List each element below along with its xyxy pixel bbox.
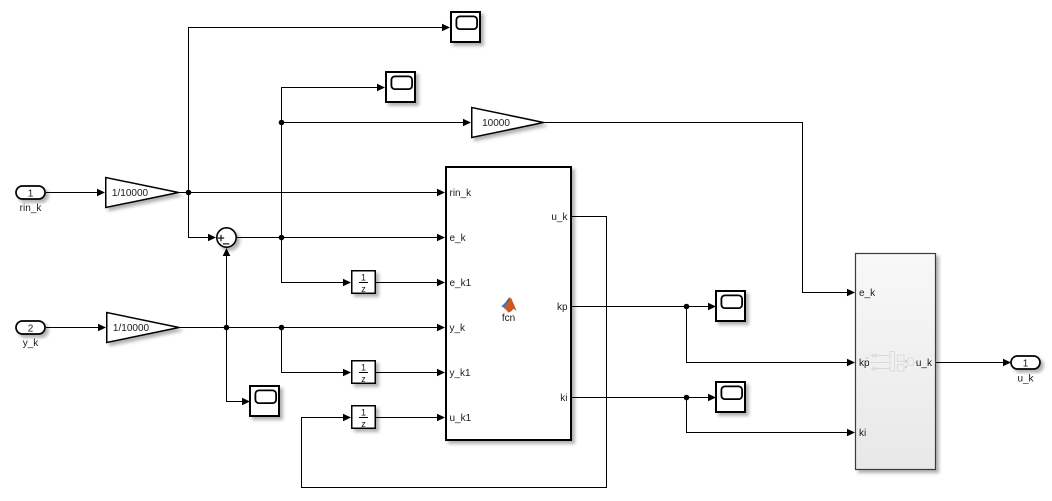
svg-text:y_k: y_k — [23, 338, 40, 349]
unit delay y_k1 — [352, 361, 376, 384]
svg-text:1: 1 — [361, 363, 366, 373]
svg-text:fcn: fcn — [502, 313, 515, 324]
scope3 lower left — [250, 386, 279, 416]
svg-text:10000: 10000 — [482, 118, 510, 129]
junction rin_k — [186, 190, 192, 196]
svg-text:1: 1 — [361, 408, 366, 418]
junction e_k gain — [279, 120, 285, 126]
svg-text:e_k: e_k — [450, 233, 467, 244]
wire kp branch to subsystem kp — [687, 307, 848, 363]
junction y_k sum — [224, 325, 230, 331]
wire e_k branch to gain 10000 — [282, 122, 464, 124]
svg-text:ki: ki — [560, 393, 567, 404]
junction e_k — [279, 235, 285, 241]
wire gain2 to fcn y_k — [179, 327, 438, 329]
junction y_k delay — [279, 325, 285, 331]
svg-text:kp: kp — [557, 302, 568, 313]
junction kp — [684, 304, 690, 310]
svg-text:y_k1: y_k1 — [450, 368, 472, 379]
outport 1 u_k — [1011, 356, 1040, 385]
sum block — [217, 228, 236, 247]
wire fcn ki to scope5 — [572, 397, 709, 399]
subsystem block — [856, 254, 936, 470]
scope5 ki — [716, 382, 745, 412]
wire delay to fcn e_k1 — [376, 282, 438, 284]
wire inport2 to gain2 — [46, 327, 99, 329]
inport 1 rin_k — [16, 186, 45, 214]
svg-text:1/10000: 1/10000 — [112, 188, 149, 199]
svg-text:z: z — [361, 419, 366, 429]
scope1 top — [451, 12, 480, 42]
svg-text:rin_k: rin_k — [20, 203, 43, 214]
svg-text:1/10000: 1/10000 — [113, 323, 150, 334]
wire subsystem u_k to outport — [936, 362, 1004, 364]
svg-text:u_k1: u_k1 — [450, 413, 472, 424]
wire gain1 to fcn rin_k — [179, 192, 438, 194]
wire y_k branch down to delay y_k1 — [282, 328, 344, 373]
wire rin_k branch up to scope1 — [189, 28, 443, 193]
svg-text:1: 1 — [361, 273, 366, 283]
svg-text:z: z — [361, 284, 366, 294]
wire gain 10000 to subsystem e_k — [544, 123, 848, 293]
svg-text:u_k: u_k — [916, 358, 933, 369]
scope4 kp — [716, 291, 745, 321]
svg-text:1: 1 — [1023, 358, 1029, 369]
MATLAB logo — [501, 297, 516, 324]
svg-text:rin_k: rin_k — [450, 188, 473, 199]
unit delay u_k1 — [352, 406, 376, 429]
MATLAB function block fcn — [446, 167, 571, 440]
wire e_k branch down to delay e_k1 — [282, 238, 344, 283]
scope2 — [386, 72, 415, 102]
subsystem preview thumbnail — [866, 352, 916, 372]
svg-text:z: z — [361, 374, 366, 384]
svg-text:u_k: u_k — [1017, 374, 1034, 385]
svg-text:u_k: u_k — [551, 212, 568, 223]
svg-text:1: 1 — [28, 188, 34, 199]
wire fcn u_k feedback to delay u_k1 — [302, 217, 607, 488]
wire e_k branch up to scope2 — [282, 88, 378, 238]
svg-text:ki: ki — [859, 428, 866, 439]
gain 10000 — [472, 108, 544, 138]
gain 1/10000 upper — [106, 178, 179, 208]
wire y_k branch down to scope3 — [227, 328, 243, 402]
inport 2 y_k — [16, 321, 45, 349]
wire delay to fcn u_k1 — [376, 417, 438, 419]
wire ki branch to subsystem ki — [687, 398, 848, 433]
svg-text:kp: kp — [859, 358, 870, 369]
wire delay to fcn y_k1 — [376, 372, 438, 374]
junction ki — [684, 395, 690, 401]
svg-text:y_k: y_k — [450, 323, 467, 334]
svg-text:2: 2 — [28, 323, 34, 334]
svg-text:e_k1: e_k1 — [450, 278, 472, 289]
gain 1/10000 lower — [107, 313, 179, 343]
svg-text:e_k: e_k — [859, 288, 876, 299]
wire y_k branch up to sum minus — [226, 256, 228, 328]
wire inport1 to gain1 — [46, 192, 98, 194]
unit delay e_k1 — [352, 271, 376, 294]
wire rin_k branch down to sum — [189, 193, 209, 238]
wire fcn kp to scope4 — [572, 306, 709, 308]
wire sum to fcn e_k — [237, 237, 438, 239]
